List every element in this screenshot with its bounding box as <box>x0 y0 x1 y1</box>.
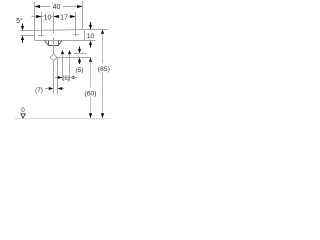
pipe extension line left x62.5 with up arrow <box>61 50 64 54</box>
dimension (85) line: top arrow at rim level <box>101 30 104 34</box>
svg-text:(6): (6) <box>62 76 69 82</box>
dimension row 10/17: leader line <box>32 16 44 18</box>
arrow pointing right at x75.5 <box>70 15 75 18</box>
arrow pointing right at x41.5 <box>36 15 41 18</box>
svg-text:40: 40 <box>53 4 61 11</box>
(85) line lower part with floor arrow <box>102 72 104 114</box>
dimension (6): leader left <box>55 77 63 79</box>
dimension (7): leader line <box>45 88 49 90</box>
pipe extension line right x69.5 with up arrow <box>68 50 71 54</box>
tap hole cross mark left <box>38 35 45 37</box>
(60) line lower part with floor arrow <box>90 97 92 114</box>
arrow left of dim 40 <box>35 5 41 8</box>
right dim 10: down arrow <box>90 22 92 26</box>
(6) leader right <box>70 77 78 79</box>
svg-text:(5): (5) <box>76 67 84 74</box>
arrow right of dim 40 <box>77 5 83 8</box>
dimension (60) line: top arrow at drain level <box>89 58 92 62</box>
extension line x41 (tap hole) <box>41 12 43 37</box>
(5) up arrow <box>79 61 81 64</box>
svg-text:10: 10 <box>44 14 52 21</box>
drain center line vertical <box>53 38 55 54</box>
right dim 10: up arrow <box>89 41 92 46</box>
(7) arrow pointing right at x53.5 <box>49 87 54 90</box>
(5) down arrow <box>79 47 81 51</box>
washbasin profile outline <box>35 30 85 41</box>
svg-text:0: 0 <box>21 107 25 114</box>
svg-text:(7): (7) <box>35 87 43 94</box>
floor line <box>14 118 110 120</box>
extension line x75.5 <box>75 12 77 37</box>
dimension 40 extension line right <box>82 1 84 30</box>
svg-text:10: 10 <box>87 33 95 40</box>
svg-text:(60): (60) <box>84 90 96 97</box>
dimension line 40 <box>35 6 51 8</box>
drain symbol diamond <box>50 54 57 61</box>
basin bottom extension line right y40.5 <box>85 40 96 42</box>
trap bump under basin <box>45 41 63 46</box>
(7) leader right <box>62 88 64 90</box>
svg-text:17: 17 <box>60 14 68 21</box>
drain axis horizontal line y57.5 <box>58 57 91 59</box>
extension line x53 (drain center upper) <box>53 12 55 33</box>
tap hole cross mark right <box>73 34 80 36</box>
svg-text:(85): (85) <box>98 66 110 73</box>
5deg up arrow <box>22 40 24 44</box>
rim level extension line right y29.5 <box>85 29 107 31</box>
(6) arrow pointing right at x62.5 <box>58 76 63 79</box>
(6) arrow pointing left at x69.5 <box>70 76 75 79</box>
(7) arrow pointing left at x57.5 <box>58 87 63 90</box>
second vertical line x57.5 <box>57 58 59 95</box>
arrow pointing left at x53.5 <box>54 15 59 18</box>
5deg down arrow <box>22 24 24 28</box>
dimension 40 extension line left (continues as basin front edge) <box>34 2 36 31</box>
(5) upper reference line y53.5 <box>74 53 87 55</box>
5deg upper extension line <box>21 30 35 32</box>
datum triangle <box>21 114 25 118</box>
5deg lower extension line <box>21 35 35 37</box>
